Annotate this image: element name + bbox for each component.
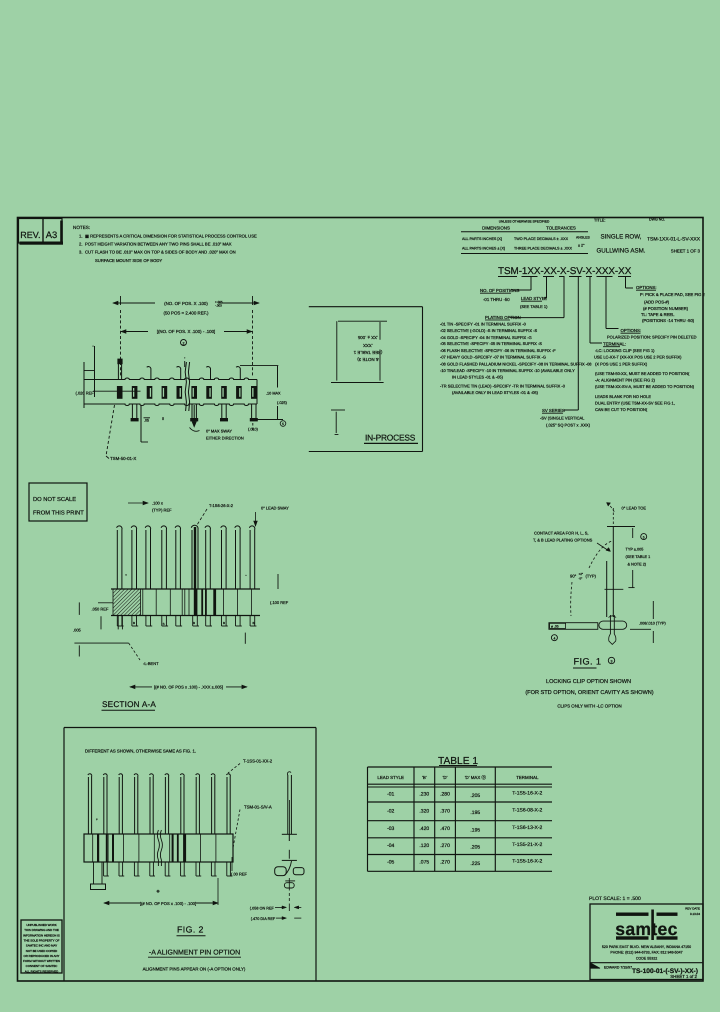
svg-text:-02: -02 — [387, 809, 394, 815]
svg-text:.320: .320 — [419, 809, 429, 815]
svg-text:⌀ .05: ⌀ .05 — [551, 625, 559, 629]
svg-text:T-1S5-21-X-2: T-1S5-21-X-2 — [512, 842, 542, 848]
svg-text:♀: ♀ — [96, 818, 99, 822]
svg-text:0° LEAD TOE: 0° LEAD TOE — [622, 506, 647, 511]
samtec address lines — [602, 945, 691, 961]
svg-text:FORM WITHOUT WRITTEN: FORM WITHOUT WRITTEN — [23, 959, 60, 963]
second dimension [(NO. OF POS x .100) - .100] — [121, 296, 253, 376]
svg-text:SECTION A-A: SECTION A-A — [102, 700, 156, 709]
svg-text:SURFACE MOUNT SIDE OF BODY: SURFACE MOUNT SIDE OF BODY — [95, 258, 162, 263]
svg-text:4: 4 — [553, 637, 555, 641]
svg-text:TYP ±.005: TYP ±.005 — [626, 548, 644, 552]
plating option list — [440, 315, 592, 395]
svg-text:NOTES:: NOTES: — [73, 225, 90, 230]
contact pins in body (black rectangles) — [117, 386, 257, 399]
svg-text:(.00 REF: (.00 REF — [231, 872, 248, 877]
fig 2 body band — [84, 834, 233, 862]
svg-text:OR REPRODUCED IN ANY: OR REPRODUCED IN ANY — [24, 954, 60, 958]
section A-A right dimension .100 REF — [245, 574, 288, 644]
section A-A legs below body — [117, 616, 256, 630]
svg-text:CONTACT AREA FOR H, L, S,: CONTACT AREA FOR H, L, S, — [534, 531, 589, 536]
svg-text:(AVAILABLE ONLY IN LEAD STYLES: (AVAILABLE ONLY IN LEAD STYLES -01 & -05… — [452, 390, 539, 395]
svg-text:-01 TIN -SPECIFY -01 IN TERMIN: -01 TIN -SPECIFY -01 IN TERMINAL SUFFIX … — [440, 322, 527, 327]
svg-text:(SEE TABLE 1: (SEE TABLE 1 — [626, 555, 651, 559]
svg-text:-L-BENT: -L-BENT — [143, 661, 159, 666]
svg-text:OPTIONS:: OPTIONS: — [621, 328, 642, 333]
fig 2 posts — [88, 774, 230, 834]
svg-text:.205: .205 — [470, 793, 480, 799]
svg-text:(NO. OF POS. X .100): (NO. OF POS. X .100) — [164, 301, 208, 306]
fig 2 alignment pin first position — [91, 862, 106, 890]
svg-text:CODE 55322: CODE 55322 — [636, 957, 657, 961]
svg-text:DIFFERENT AS SHOWN, OTHERWISE: DIFFERENT AS SHOWN, OTHERWISE SAME AS FI… — [85, 749, 196, 754]
svg-text:B: B — [252, 621, 254, 625]
svg-text:δ: δ — [162, 417, 164, 421]
fig 1 right dimension .008/.010 — [630, 601, 667, 643]
svg-text:.075: .075 — [419, 860, 429, 866]
connector body top figure with scalloped lines — [84, 378, 257, 406]
svg-text:'D': 'D' — [443, 775, 448, 780]
lead sway label right — [254, 506, 289, 527]
svg-text:FIG. 1: FIG. 1 — [574, 657, 602, 667]
svg-text:T-1SS-01-XX-2: T-1SS-01-XX-2 — [243, 759, 273, 764]
fig 2 legs below body — [104, 862, 232, 876]
svg-text:A3: A3 — [46, 229, 57, 240]
svg-text:▣ REPRESENTS A CRITICAL DIMENS: ▣ REPRESENTS A CRITICAL DIMENSION FOR ST… — [85, 234, 257, 239]
FIG 2 title — [177, 925, 206, 936]
body right end line — [256, 380, 258, 405]
title block bottom row drawing number — [604, 966, 698, 980]
svg-text:.470: .470 — [440, 826, 450, 832]
SV series label — [540, 408, 591, 428]
svg-text:B: B — [133, 621, 135, 625]
svg-text:(.025" SQ POST x .XXX): (.025" SQ POST x .XXX) — [546, 423, 591, 428]
fig 1 90 degree angle note with arc — [570, 541, 612, 616]
in-process inner part outline — [331, 321, 387, 382]
svg-text:1.: 1. — [79, 234, 83, 239]
in-process stamp box — [309, 307, 423, 452]
top view dimension (NO. OF POS x .100) — [113, 300, 259, 316]
proprietary note box bottom left — [21, 920, 62, 973]
svg-text:♀: ♀ — [125, 573, 128, 577]
fig 1 vertical lead — [605, 527, 636, 618]
IN-PROCESS stamp text — [364, 433, 418, 444]
svg-text:(.470 DIA REF: (.470 DIA REF — [251, 917, 276, 921]
svg-text:0° MAX SWAY: 0° MAX SWAY — [206, 429, 232, 434]
svg-text:[(# NO. OF POS x .100) - .100]: [(# NO. OF POS x .100) - .100] — [140, 901, 196, 906]
svg-text:.280: .280 — [440, 792, 450, 798]
svg-text:SV SERIES: SV SERIES — [542, 408, 565, 413]
section A-A hatched sectioned body — [113, 589, 141, 616]
table 1 title — [438, 756, 478, 767]
svg-text:.420: .420 — [419, 826, 429, 832]
svg-text:(TYP): (TYP) — [586, 574, 597, 579]
title block header text — [594, 218, 701, 255]
svg-text:3: 3 — [611, 659, 613, 663]
plot scale note — [589, 896, 641, 902]
svg-text:LEADS BLANK FOR NO HOLE: LEADS BLANK FOR NO HOLE — [595, 394, 651, 399]
svg-text:LOCKING CLIP OPTION SHOWN: LOCKING CLIP OPTION SHOWN — [546, 679, 631, 685]
fig 1 datum circle symbol — [551, 635, 557, 641]
fig 2 note different as shown — [85, 749, 196, 754]
svg-text:THREE PLACE DECIMALS ± .XXX: THREE PLACE DECIMALS ± .XXX — [514, 247, 573, 251]
svg-text:TOLERANCES: TOLERANCES — [546, 226, 576, 231]
no. of positions label — [480, 288, 520, 302]
svg-text:REV.: REV. — [20, 230, 40, 240]
fig 2 alignment pin option caption — [143, 950, 246, 972]
svg-text:CUT FLASH TO BE .010" MAX ON T: CUT FLASH TO BE .010" MAX ON TOP & SIDES… — [85, 250, 236, 255]
fig 1 foot bar with datum box — [549, 623, 598, 630]
right dimension extension lines and .100 MAX label — [240, 366, 288, 427]
svg-text:PHONE: (812) 944-6733, FAX: 81: PHONE: (812) 944-6733, FAX: 812 948-5047 — [610, 951, 682, 955]
svg-text:[(# NO. OF POS x .100) - .XXX: [(# NO. OF POS x .100) - .XXX ±.005] — [154, 685, 223, 690]
svg-text:CAN BE CUT TO POSITION(: CAN BE CUT TO POSITION( — [595, 407, 648, 412]
spc critical dimension flag symbol — [181, 340, 187, 346]
svg-text:5: 5 — [282, 422, 284, 426]
svg-text:-01 THRU -50: -01 THRU -50 — [483, 297, 510, 302]
svg-text:.050 REF: .050 REF — [92, 607, 109, 612]
svg-text:NO. OF POSITIONS: NO. OF POSITIONS — [480, 288, 520, 293]
svg-text:TWO PLACE DECIMALS ± .XXX: TWO PLACE DECIMALS ± .XXX — [514, 237, 569, 241]
svg-text:.008/.010 (TYP): .008/.010 (TYP) — [639, 622, 667, 626]
svg-text:CLIPS ONLY WITH -LC OPTION: CLIPS ONLY WITH -LC OPTION — [557, 704, 621, 709]
svg-text:'B': 'B' — [422, 775, 427, 780]
svg-text:IN LEAD STYLES -01 & -05): IN LEAD STYLES -01 & -05) — [452, 374, 504, 379]
section A-A body division lines and contact bars — [143, 589, 252, 616]
svg-text:.005: .005 — [73, 628, 82, 633]
svg-text:SAMTEC INC AND MAY: SAMTEC INC AND MAY — [26, 944, 57, 948]
svg-text:.225: .225 — [470, 861, 480, 867]
svg-text:(50 POS = 2.400 REF.): (50 POS = 2.400 REF.) — [163, 311, 209, 316]
terminal label T-1S6-26-X-2 with leader — [197, 503, 234, 525]
tolerance table header — [461, 220, 590, 254]
svg-text:-03: -03 — [387, 826, 394, 832]
svg-text:-TR SELECTIVE TIN (LEAD) -SPEC: -TR SELECTIVE TIN (LEAD) -SPECIFY -TR IN… — [440, 384, 566, 389]
svg-text:T-1S6-26-X-2: T-1S6-26-X-2 — [209, 503, 234, 508]
section A-A left dimensions .050 REF and .005 — [73, 602, 159, 666]
svg-text:REV DATE: REV DATE — [685, 907, 700, 911]
fig 2 enclosure box — [64, 728, 316, 981]
svg-text:-07 HEAVY GOLD -SPECIFY -07 IN: -07 HEAVY GOLD -SPECIFY -07 IN TERMINAL … — [440, 355, 546, 360]
svg-text:0° LEAD SWAY: 0° LEAD SWAY — [261, 506, 289, 511]
in-process rotated text — [353, 335, 382, 362]
fig 2 alignment pin dimensions — [250, 904, 301, 922]
svg-text:90°: 90° — [570, 574, 577, 579]
svg-text:-A: ALIGNMENT PIN (SEE FIG 2): -A: ALIGNMENT PIN (SEE FIG 2) — [595, 378, 656, 383]
part number callout TSM-1XX-XX-X-SV-X-XXX-XX — [498, 266, 632, 277]
svg-text:2.: 2. — [79, 242, 83, 247]
svg-text:DWG NO.: DWG NO. — [649, 218, 665, 222]
svg-text:.230: .230 — [419, 792, 429, 798]
svg-text:B: B — [193, 621, 195, 625]
table 1 data rows — [387, 791, 542, 868]
svg-text:520 PARK EAST BLVD. NEW ALBANY: 520 PARK EAST BLVD. NEW ALBANY, INDIANA … — [602, 945, 691, 949]
fig 1 right bracket dimension TYP — [626, 528, 651, 588]
title block outline — [590, 904, 703, 980]
svg-text:(SEE TABLE 1: (SEE TABLE 1 — [353, 350, 382, 355]
sway arrow and note — [190, 405, 259, 441]
svg-text:-05 SELECTIVE -SPECIFY -05 IN: -05 SELECTIVE -SPECIFY -05 IN TERMINAL S… — [440, 341, 542, 346]
svg-text:TSM-1XX-XX-X-SV-X-XXX-XX: TSM-1XX-XX-X-SV-X-XXX-XX — [498, 266, 632, 277]
svg-text:-A ALIGNMENT PIN OPTION: -A ALIGNMENT PIN OPTION — [149, 950, 240, 957]
fig 2 bottom dimension — [104, 878, 218, 906]
svg-text:FROM THIS PRINT: FROM THIS PRINT — [33, 510, 84, 517]
svg-text:UNPUBLISHED WORK: UNPUBLISHED WORK — [26, 923, 56, 927]
samtec logo — [615, 910, 677, 941]
svg-text:-08 GOLD FLASHED PALLADIUM NIC: -08 GOLD FLASHED PALLADIUM NICKEL -SPECI… — [440, 361, 592, 366]
svg-text:.XXX: .XXX — [363, 343, 373, 348]
svg-text:2: 2 — [183, 341, 185, 345]
svg-text:-04: -04 — [387, 843, 394, 849]
leader to part label TSM-50-01-X — [106, 405, 136, 461]
fig 2 gullwing lead cross-section detail — [275, 850, 304, 903]
svg-text:(TYP) REF: (TYP) REF — [152, 508, 172, 513]
svg-text:TSM-01-S/V-A: TSM-01-S/V-A — [244, 805, 272, 810]
svg-text:(USE TSM-XX-SV-A, MUST BE ADDE: (USE TSM-XX-SV-A, MUST BE ADDED TO POSIT… — [595, 384, 695, 389]
fig 1 caption lines — [525, 679, 653, 709]
svg-text:-LC: LOCKING CLIP (SEE FIG 1): -LC: LOCKING CLIP (SEE FIG 1) — [595, 348, 655, 353]
svg-text:ALL RIGHTS RESERVED: ALL RIGHTS RESERVED — [25, 969, 58, 973]
revision block REV A3 with drop shadow — [19, 219, 64, 245]
svg-text:P: PICK & PLACE PAD, SEE FIG 2: P: PICK & PLACE PAD, SEE FIG 2 — [640, 292, 706, 297]
svg-text:+2°: +2° — [579, 572, 584, 576]
svg-text:POST HEIGHT VARIATION BETWEEN: POST HEIGHT VARIATION BETWEEN ANY TWO PI… — [85, 242, 232, 247]
lead coplanarity dimension .05 — [141, 405, 150, 442]
svg-text:POLARIZED POSITION: SPECIFY PI: POLARIZED POSITION: SPECIFY PIN DELETED — [607, 335, 697, 340]
svg-text:(.010): (.010) — [248, 428, 259, 432]
svg-text:NOT BE USED COPIED: NOT BE USED COPIED — [26, 949, 57, 953]
svg-text:samtec: samtec — [615, 919, 677, 939]
svg-text:ALL PARTS INCHES [X]: ALL PARTS INCHES [X] — [462, 237, 502, 241]
FIG 1 title — [573, 657, 615, 669]
svg-text:.100 x: .100 x — [152, 501, 163, 506]
svg-text:LEAD STYLE: LEAD STYLE — [521, 296, 547, 301]
svg-text:.370: .370 — [440, 809, 450, 815]
svg-text:.XX ± .005: .XX ± .005 — [357, 335, 378, 340]
svg-text:T, & B LEAD PLATING OPTIONS: T, & B LEAD PLATING OPTIONS — [533, 538, 593, 543]
revision date small text — [685, 907, 700, 917]
svg-text:ALIGNMENT PINS APPEAR ON (-A O: ALIGNMENT PINS APPEAR ON (-A OPTION ONLY… — [143, 967, 246, 972]
fig 1 locking clip stadium and lead cross — [599, 615, 627, 644]
svg-text:-.003: -.003 — [215, 304, 222, 308]
in-process tee mark — [331, 410, 345, 435]
svg-text:INFORMATION HEREON IS: INFORMATION HEREON IS — [23, 933, 60, 937]
svg-text:-SV (SINGLE VERTICAL: -SV (SINGLE VERTICAL — [540, 416, 585, 421]
svg-text:TL: TAPE & REEL: TL: TAPE & REEL — [641, 312, 675, 317]
svg-text:.05: .05 — [144, 419, 149, 423]
svg-text:DIMENSIONS: DIMENSIONS — [482, 226, 510, 231]
section A-A posts — [117, 525, 255, 589]
svg-text:-01: -01 — [387, 792, 394, 798]
table 1 grid — [368, 767, 553, 871]
svg-text:ALL PARTS INCHES ± [X]: ALL PARTS INCHES ± [X] — [462, 247, 505, 251]
svg-text:5: 5 — [643, 535, 645, 539]
svg-text:B: B — [223, 621, 225, 625]
fig 2 labels with leaders — [96, 759, 273, 894]
drawing border frame — [18, 218, 704, 982]
svg-text:T-1S5-16-X-2: T-1S5-16-X-2 — [512, 791, 542, 797]
svg-text:.205: .205 — [470, 844, 480, 850]
svg-text:PLATING OPTION: PLATING OPTION — [485, 315, 521, 320]
svg-text:EDWARD 7/15/97: EDWARD 7/15/97 — [604, 966, 632, 970]
svg-text:.195: .195 — [470, 827, 480, 833]
svg-text:S: S — [163, 622, 165, 626]
left dimension .020 REF with leader — [76, 345, 141, 408]
svg-text:SHEET 1 of 2: SHEET 1 of 2 — [670, 974, 697, 979]
svg-text:9.13.04: 9.13.04 — [690, 912, 700, 916]
svg-text:TSM-1XX-01-L-SV-XXX: TSM-1XX-01-L-SV-XXX — [647, 237, 701, 243]
svg-text:(.100 REF: (.100 REF — [270, 600, 289, 605]
svg-text:± 2°: ± 2° — [578, 244, 585, 248]
svg-text:.10 MAX: .10 MAX — [266, 392, 281, 396]
svg-text:-06 FLASH SELECTIVE -SPECIFY -: -06 FLASH SELECTIVE -SPECIFY -06 IN TERM… — [440, 348, 556, 353]
general notes text block — [73, 225, 257, 263]
section A-A small labels — [125, 573, 255, 626]
svg-text:USE LC-XX-T (XX-XX POS USE 2 P: USE LC-XX-T (XX-XX POS USE 2 PER SUFFIX) — [594, 355, 682, 360]
svg-text:(USE TSM-50-XX, MUST BE ADDED: (USE TSM-50-XX, MUST BE ADDED TO POSITIO… — [595, 371, 690, 376]
svg-text:[(NO. OF POS. X .100) - .100]: [(NO. OF POS. X .100) - .100] — [157, 329, 216, 334]
fig 2 break lines — [157, 830, 162, 866]
break lines in body middle — [185, 362, 189, 411]
svg-text:TERMINAL:: TERMINAL: — [603, 342, 626, 347]
svg-text:T-1S6-08-X-2: T-1S6-08-X-2 — [512, 808, 542, 814]
fig 1 contact area note with arrow — [533, 531, 611, 552]
svg-text:-10 TIN/LEAD -SPECIFY -10 IN T: -10 TIN/LEAD -SPECIFY -10 IN TERMINAL SU… — [440, 368, 575, 373]
svg-text:FIG. 2: FIG. 2 — [177, 925, 204, 935]
svg-text:THE SOLE PROPERTY OF: THE SOLE PROPERTY OF — [24, 938, 60, 942]
lead style label — [520, 296, 548, 309]
svg-text:.270: .270 — [440, 860, 450, 866]
svg-text:(SEE TABLE 1): (SEE TABLE 1) — [520, 304, 548, 309]
svg-text:T-1S6-13-X-2: T-1S6-13-X-2 — [512, 825, 542, 831]
options list right column — [594, 285, 706, 412]
svg-text:SHEET 1 OF 3: SHEET 1 OF 3 — [671, 249, 701, 254]
svg-text:(POSITIONS -14 THRU -50): (POSITIONS -14 THRU -50) — [642, 318, 695, 323]
svg-text:(.058 ON REF: (.058 ON REF — [250, 907, 275, 911]
do not scale box — [29, 483, 87, 521]
SECTION A-A title — [102, 700, 157, 710]
section A-A top dimension .100 TYP — [128, 501, 172, 513]
svg-text:TITLE:: TITLE: — [594, 219, 605, 223]
svg-text:-02 SELECTIVE (-GOLD) -S IN TE: -02 SELECTIVE (-GOLD) -S IN TERMINAL SUF… — [440, 328, 537, 333]
svg-text:(ADD POS-#): (ADD POS-#) — [644, 300, 670, 305]
svg-text:.270: .270 — [440, 843, 450, 849]
svg-text:UNLESS OTHERWISE SPECIFIED: UNLESS OTHERWISE SPECIFIED — [499, 220, 550, 224]
svg-text:(.020 REF: (.020 REF — [76, 391, 95, 396]
svg-text:.120: .120 — [419, 843, 429, 849]
section A-A bottom dimension — [130, 685, 247, 690]
svg-text:(X POS USE 1 PER SUFFIX): (X POS USE 1 PER SUFFIX) — [595, 362, 648, 367]
section A-A body band — [111, 589, 260, 616]
svg-text:THIS DRAWING AND THE: THIS DRAWING AND THE — [24, 928, 59, 932]
svg-text:PLOT SCALE: 1 = .500: PLOT SCALE: 1 = .500 — [589, 896, 641, 902]
svg-text:(.025): (.025) — [277, 401, 288, 405]
svg-text:3.: 3. — [79, 250, 83, 255]
svg-text:EITHER DIRECTION: EITHER DIRECTION — [206, 436, 244, 441]
svg-text:DUAL ENTRY (USE TSM-XX-SV SEE: DUAL ENTRY (USE TSM-XX-SV SEE FIG 1, — [595, 401, 675, 406]
svg-text:TERMINAL: TERMINAL — [516, 775, 539, 780]
svg-text:DO NOT SCALE: DO NOT SCALE — [33, 496, 76, 503]
svg-text:GULLWING ASM.: GULLWING ASM. — [596, 248, 645, 255]
fig 1 lead toe arrow and label — [607, 503, 647, 527]
table 1 header text — [377, 775, 539, 780]
svg-text:TSM-50-01-X: TSM-50-01-X — [110, 456, 136, 461]
svg-text:IN-PROCESS: IN-PROCESS — [365, 433, 416, 443]
svg-text:-04 GOLD -SPECIFY -04 IN TERMI: -04 GOLD -SPECIFY -04 IN TERMINAL SUFFIX… — [440, 335, 532, 340]
svg-text:CONSENT OF SAMTEC: CONSENT OF SAMTEC — [26, 964, 58, 968]
svg-text:SINGLE ROW,: SINGLE ROW, — [601, 234, 642, 241]
posts above body — [117, 357, 240, 380]
svg-text:& NOTE 2): & NOTE 2) — [628, 563, 647, 567]
svg-text:-05: -05 — [387, 860, 394, 866]
svg-text:(FOR STD OPTION, ORIENT CAVITY: (FOR STD OPTION, ORIENT CAVITY AS SHOWN) — [525, 689, 653, 696]
svg-text:.195: .195 — [470, 810, 480, 816]
svg-text:T-1S5-16-X-2: T-1S5-16-X-2 — [512, 859, 542, 865]
svg-text:⊕: ⊕ — [156, 889, 159, 894]
svg-text:(# POSITION NUMBER): (# POSITION NUMBER) — [643, 306, 689, 311]
svg-text:ANGLES: ANGLES — [576, 236, 590, 240]
leader lines from part number segments — [510, 277, 633, 410]
svg-text:LEAD STYLE: LEAD STYLE — [377, 775, 404, 780]
surface mount leads below body — [131, 404, 258, 421]
svg-text:& NOTE 3): & NOTE 3) — [357, 357, 379, 362]
fig 2 alignment pin detail right post — [282, 772, 297, 841]
svg-text:OPTIONS:: OPTIONS: — [636, 285, 657, 290]
svg-text:'D' MAX ⓪: 'D' MAX ⓪ — [465, 775, 487, 780]
